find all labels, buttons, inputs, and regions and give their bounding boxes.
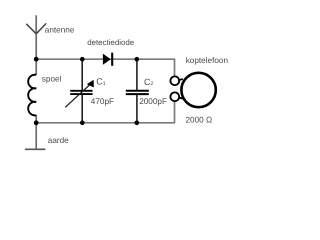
wire top bus	[36, 59, 174, 77]
headphone terminal bottom	[170, 92, 179, 101]
node C2 top	[135, 57, 140, 62]
headphone (koptelefoon) earpiece	[181, 73, 215, 107]
coil L1 spoel	[28, 75, 36, 116]
svg-text:2000pF: 2000pF	[139, 97, 167, 106]
wire left vertical (antenna lead down to coil)	[35, 15, 37, 75]
wire bottom bus	[36, 101, 174, 123]
node C1 bottom	[80, 121, 85, 126]
wire C2 bottom lead	[136, 95, 138, 123]
node antenna junction	[34, 57, 39, 62]
node ground junction	[34, 120, 39, 125]
node C1 top	[80, 57, 85, 62]
svg-text:antenne: antenne	[45, 26, 75, 35]
svg-text:detectiediode: detectiediode	[87, 38, 135, 47]
node C2 bottom	[135, 121, 140, 126]
antenna	[26, 23, 46, 33]
wire C2 top lead	[136, 59, 138, 90]
capacitor C2 (2000pF)	[126, 91, 149, 94]
svg-text:2000 Ω: 2000 Ω	[186, 116, 213, 125]
svg-text:spoel: spoel	[42, 75, 62, 84]
wire stub joining top terminal to earpiece	[178, 79, 183, 80]
ground (aarde)	[25, 148, 46, 150]
wire stub joining bottom terminal to earpiece	[178, 97, 183, 98]
wire C1 bottom lead	[81, 95, 83, 123]
capacitor C1 (variable, 470pF)	[65, 80, 94, 108]
svg-text:aarde: aarde	[48, 136, 69, 145]
svg-text:koptelefoon: koptelefoon	[186, 56, 229, 65]
headphone terminal top	[170, 76, 179, 85]
wire left vertical (coil to ground)	[35, 115, 37, 150]
diode D1 detectiediode	[103, 53, 112, 66]
svg-text:470pF: 470pF	[91, 97, 114, 106]
wire C1 top lead	[81, 59, 83, 90]
